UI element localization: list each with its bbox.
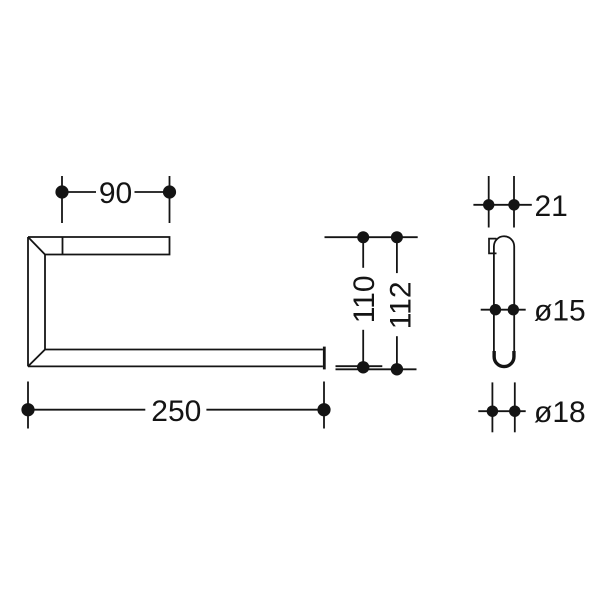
svg-text:21: 21 bbox=[535, 190, 568, 223]
svg-text:ø18: ø18 bbox=[534, 396, 586, 429]
svg-text:110: 110 bbox=[348, 275, 381, 323]
svg-text:250: 250 bbox=[151, 395, 201, 428]
svg-text:112: 112 bbox=[385, 281, 418, 329]
svg-text:90: 90 bbox=[99, 177, 132, 210]
svg-text:ø15: ø15 bbox=[534, 295, 586, 328]
